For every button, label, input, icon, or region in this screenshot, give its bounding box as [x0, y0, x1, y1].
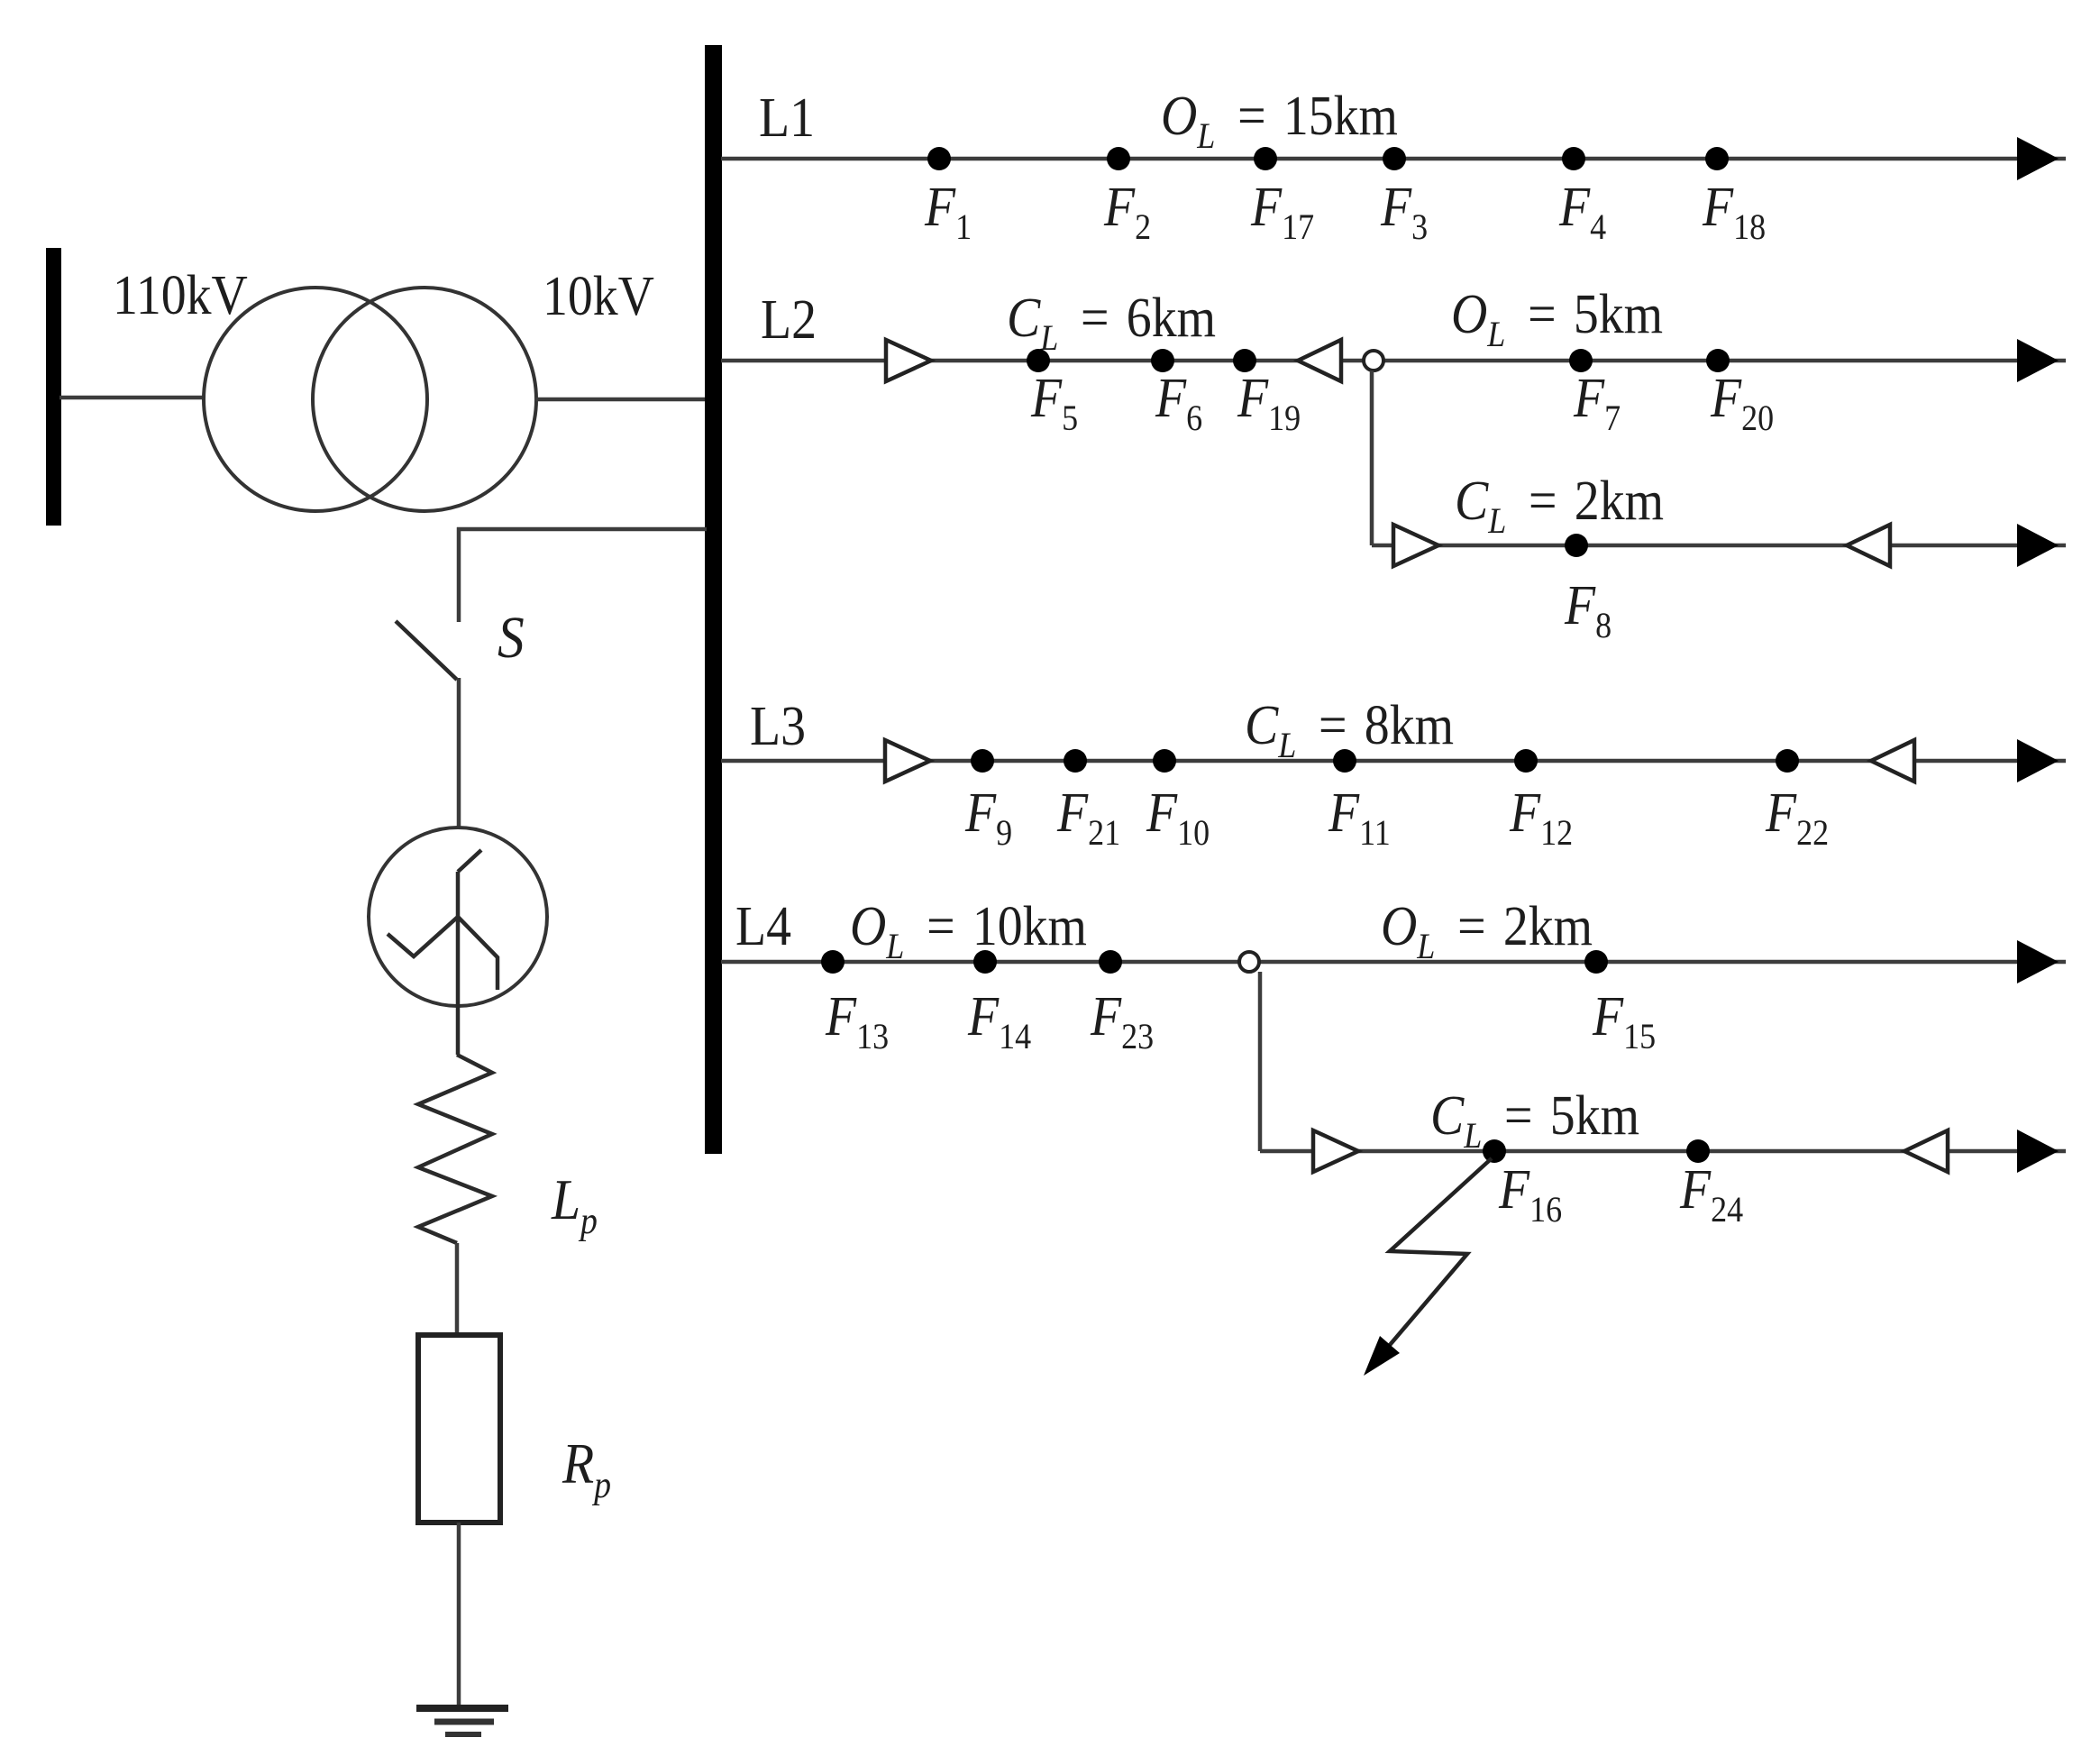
svg-text:CL = 5km: CL = 5km — [1430, 1084, 1639, 1156]
svg-text:10kV: 10kV — [543, 264, 654, 326]
svg-text:L2: L2 — [761, 288, 817, 350]
svg-text:110kV: 110kV — [113, 263, 248, 325]
svg-text:OL = 2km: OL = 2km — [1381, 894, 1593, 966]
svg-text:L4: L4 — [735, 894, 791, 956]
svg-text:OL = 5km: OL = 5km — [1451, 282, 1663, 354]
svg-text:L1: L1 — [759, 86, 815, 148]
svg-text:L3: L3 — [750, 694, 806, 756]
svg-text:CL = 2km: CL = 2km — [1455, 469, 1664, 541]
svg-text:CL = 6km: CL = 6km — [1007, 286, 1216, 358]
svg-text:S: S — [498, 604, 525, 671]
